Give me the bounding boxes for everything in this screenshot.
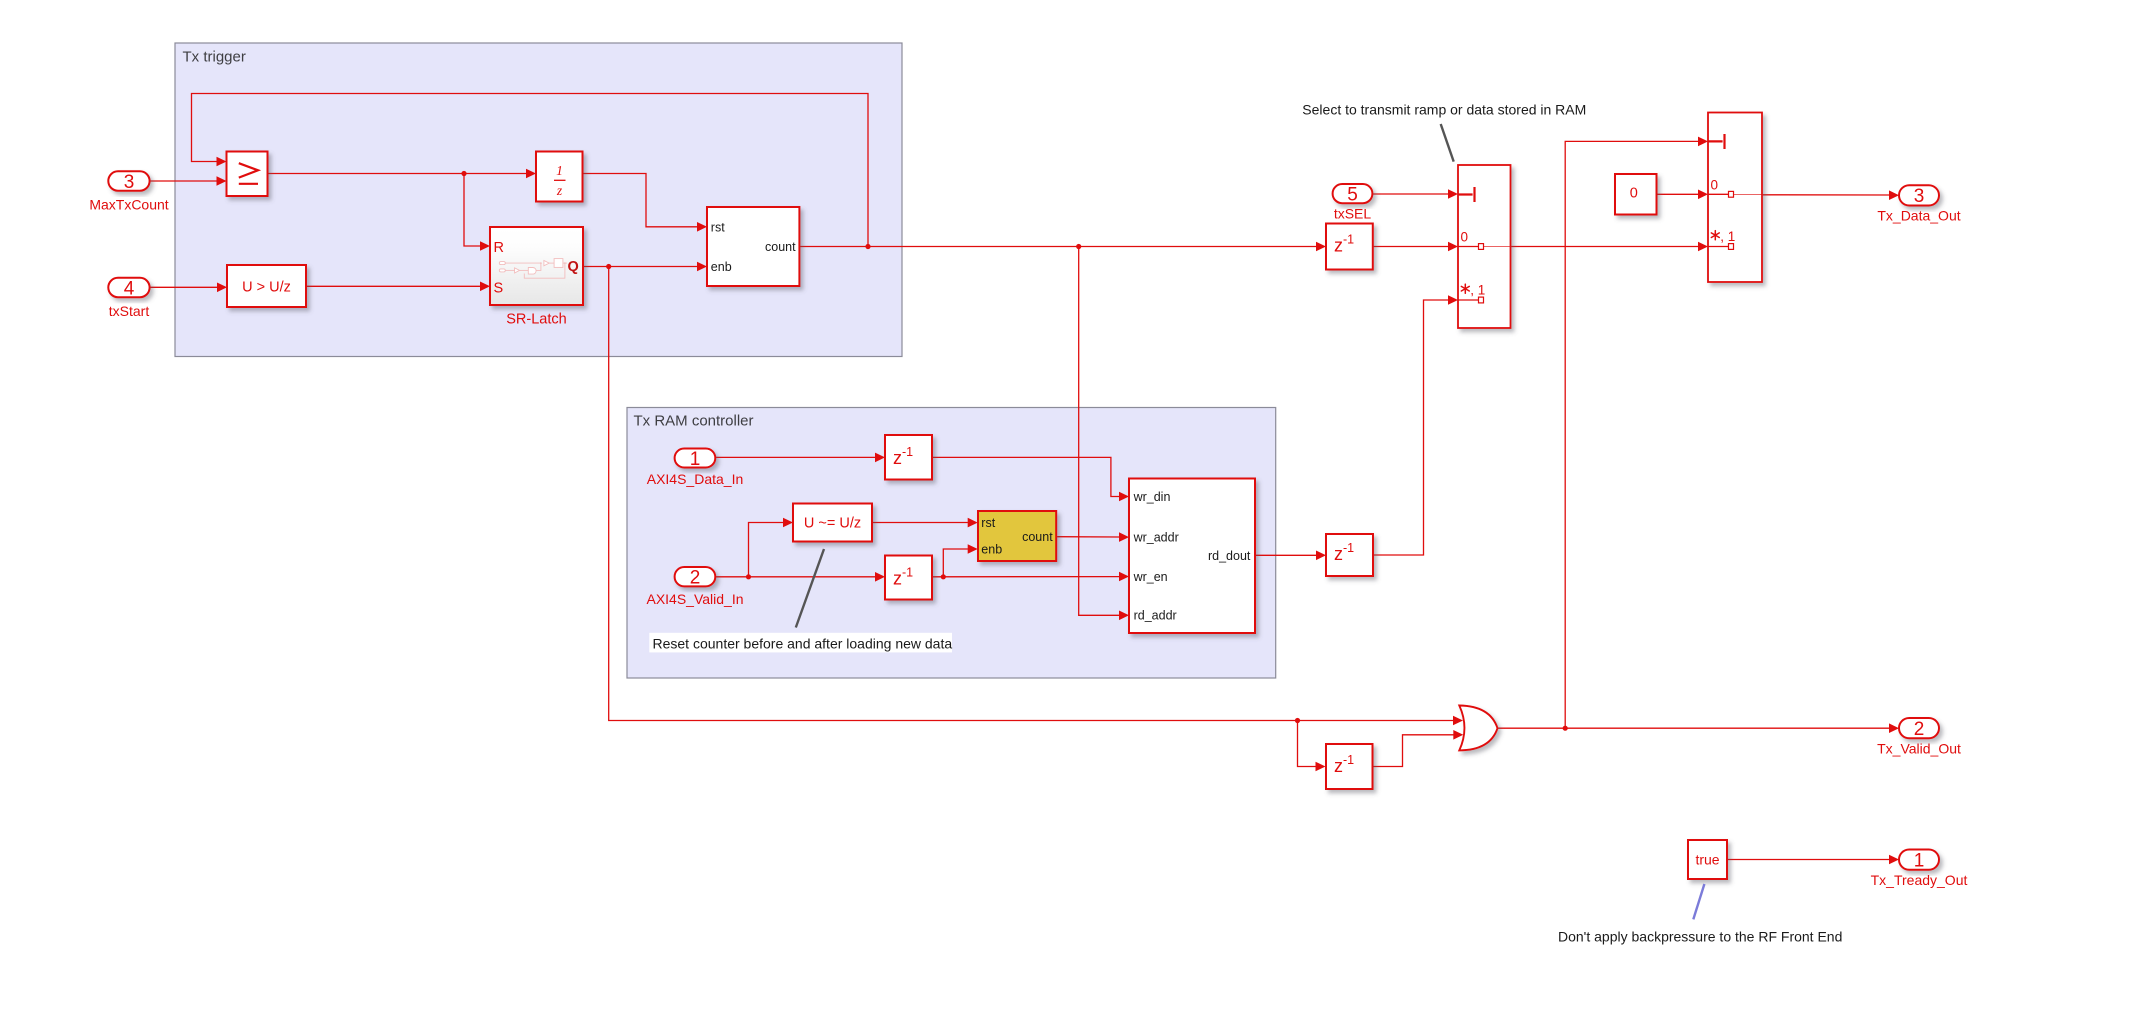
wire: Inport 3 to relational operator xyxy=(150,180,217,182)
multiport switch 1 xyxy=(1458,165,1511,328)
svg-text:count: count xyxy=(765,240,796,254)
svg-text:rd_addr: rd_addr xyxy=(1134,609,1177,623)
switch 2 input *,1 port xyxy=(1708,246,1729,248)
wire: yellow counter count to RAM wr_addr xyxy=(1056,536,1119,538)
wire: Inport 5 txSEL to multiport switch 1 control xyxy=(1372,193,1448,195)
unit delay block 1/z xyxy=(536,152,583,202)
constant block 0 xyxy=(1615,174,1657,215)
relational operator block >= xyxy=(227,152,268,197)
switch 1 input *,1 port xyxy=(1458,299,1479,301)
svg-text:1: 1 xyxy=(690,449,701,470)
wire: Inport 4 to U > U/z xyxy=(150,286,218,288)
wire: branch up to yellow counter enb xyxy=(943,549,968,577)
svg-text:Tx RAM controller: Tx RAM controller xyxy=(634,413,754,430)
compare block U ~= U/z xyxy=(793,504,872,542)
wire: unit delay 1/z to counter rst xyxy=(583,174,698,227)
multiport switch 2 xyxy=(1708,113,1762,283)
svg-text:Tx trigger: Tx trigger xyxy=(183,49,246,66)
svg-text:Q: Q xyxy=(568,259,579,275)
SR-Latch faint internal icon xyxy=(499,259,567,279)
svg-text:wr_din: wr_din xyxy=(1133,490,1171,504)
svg-text:rst: rst xyxy=(711,220,725,234)
junction: OR output branch to switch 2 control xyxy=(1563,726,1568,731)
wire: feedback from count output to relational operator top input xyxy=(192,94,869,247)
svg-text:3: 3 xyxy=(1914,186,1925,207)
wire: Inport 2 AXI4S_Valid_In to valid-in delay z-1 xyxy=(715,576,875,578)
svg-text:0: 0 xyxy=(1630,185,1638,201)
OR gate xyxy=(1459,706,1497,751)
wire: counter count output to delay z-1 (txSEL path) xyxy=(799,246,1316,248)
junction: relational operator output branch xyxy=(461,171,466,176)
svg-text:txStart: txStart xyxy=(109,303,150,319)
wire: delay z-1 to multiport switch 1 input 0 xyxy=(1373,246,1448,248)
annotation: Reset counter before and after loading new data xyxy=(649,633,952,653)
wire: constant 0 to multiport switch 2 input 0 xyxy=(1657,193,1699,195)
svg-text:Reset counter before and after: Reset counter before and after loading n… xyxy=(653,635,953,651)
svg-text:2: 2 xyxy=(1914,719,1925,740)
svg-text:z: z xyxy=(556,183,563,198)
svg-text:4: 4 xyxy=(124,278,135,299)
svg-text:true: true xyxy=(1695,851,1719,867)
annotation leader line to switch 1 xyxy=(1441,124,1454,162)
data delay block z-1 (AXI4S data) xyxy=(885,435,932,480)
wire: read delay z-1 to multiport switch 1 input *,1 xyxy=(1373,300,1448,555)
subsystem area: Tx RAM controller xyxy=(627,408,1276,679)
annotation leader line to U ~= U/z xyxy=(796,549,824,628)
wire: multiport switch 1 output to multiport switch 2 input *,1 xyxy=(1511,246,1699,248)
RAM block xyxy=(1129,479,1255,634)
constant block true xyxy=(1688,840,1727,879)
wire: multiport switch 2 output to Outport 3 Tx_Data_Out xyxy=(1762,194,1889,196)
svg-text:U > U/z: U > U/z xyxy=(242,279,291,295)
junction: Q output branch xyxy=(606,264,611,269)
wire: U > U/z to SR-Latch S input xyxy=(306,285,480,287)
delay block z-1 (count to switch) xyxy=(1326,224,1373,270)
wire: count branch down to RAM rd_addr xyxy=(1079,247,1120,616)
svg-text:rd_dout: rd_dout xyxy=(1208,549,1251,563)
wire: valid delay z-1 to OR gate bottom input xyxy=(1373,735,1454,767)
read delay block z-1 (rd_dout) xyxy=(1326,534,1373,576)
svg-text:enb: enb xyxy=(711,260,732,274)
wire: branch down to valid delay z-1 input xyxy=(1298,721,1316,767)
svg-text:Tx_Valid_Out: Tx_Valid_Out xyxy=(1877,740,1961,756)
annotation leader line to true constant xyxy=(1693,884,1704,919)
Outport 3 oval Tx_Data_Out xyxy=(1899,185,1939,205)
switch 2 control port tick xyxy=(1708,134,1725,149)
switch 1 input 0 port xyxy=(1458,246,1479,248)
svg-text:2: 2 xyxy=(690,568,701,589)
junction: valid-in branch xyxy=(746,574,751,579)
wire: RAM rd_dout to read delay z-1 xyxy=(1255,554,1316,556)
wire: Inport 1 AXI4S_Data_In to data delay z-1 xyxy=(715,456,875,458)
junction: wr_en branch to counter enb xyxy=(941,574,946,579)
svg-text:U ~= U/z: U ~= U/z xyxy=(804,515,861,531)
Inport 4 oval xyxy=(108,278,149,297)
wire: OR gate output to Outport 2 Tx_Valid_Out xyxy=(1498,727,1890,729)
svg-text:wr_addr: wr_addr xyxy=(1133,530,1179,544)
svg-text:S: S xyxy=(494,281,504,297)
svg-text:, 1: , 1 xyxy=(1470,282,1485,297)
wire: branch to SR-Latch R input xyxy=(464,174,480,247)
junction: valid line branch to delay xyxy=(1295,718,1300,723)
svg-text:wr_en: wr_en xyxy=(1133,570,1168,584)
svg-text:AXI4S_Valid_In: AXI4S_Valid_In xyxy=(646,591,743,607)
svg-text:Select to transmit ramp or dat: Select to transmit ramp or data stored i… xyxy=(1302,101,1586,117)
subsystem area: Tx trigger xyxy=(175,43,902,357)
svg-text:txSEL: txSEL xyxy=(1334,205,1372,221)
wire: OR output branch up to multiport switch 2 control xyxy=(1565,141,1698,728)
svg-text:enb: enb xyxy=(981,542,1002,556)
junction: count output branch to RAM controller xyxy=(1076,244,1081,249)
wire: branch up to U ~= U/z input xyxy=(749,523,784,577)
wire: true constant to Outport 1 Tx_Tready_Out xyxy=(1727,859,1889,861)
svg-text:5: 5 xyxy=(1347,185,1358,206)
svg-text:Don't apply backpressure to th: Don't apply backpressure to the RF Front… xyxy=(1558,928,1842,944)
svg-text:Tx_Data_Out: Tx_Data_Out xyxy=(1877,208,1960,224)
svg-text:3: 3 xyxy=(124,172,135,193)
svg-text:R: R xyxy=(494,240,504,256)
Inport 5 oval txSEL xyxy=(1333,184,1373,203)
wire: relational operator to unit delay 1/z xyxy=(268,173,527,175)
svg-text:1: 1 xyxy=(556,163,563,178)
svg-text:, 1: , 1 xyxy=(1720,229,1735,244)
svg-text:1: 1 xyxy=(1914,851,1925,872)
svg-text:0: 0 xyxy=(1461,230,1469,245)
compare block U > U/z xyxy=(227,265,306,307)
switch 1 control port tick xyxy=(1458,187,1475,202)
junction: feedback tap on count output xyxy=(865,244,870,249)
counter subsystem block with rst enb count xyxy=(707,207,799,286)
switch 2 input 0 port xyxy=(1708,193,1729,195)
svg-text:AXI4S_Data_In: AXI4S_Data_In xyxy=(647,471,744,487)
valid-in delay block z-1 xyxy=(885,556,932,600)
valid delay block z-1 (to OR gate) xyxy=(1326,744,1373,789)
yellow counter block with rst enb count xyxy=(978,511,1056,561)
wire: U ~= U/z to yellow counter rst xyxy=(872,522,968,524)
Outport 1 oval Tx_Tready_Out xyxy=(1899,850,1939,870)
Inport 2 oval AXI4S_Valid_In xyxy=(675,567,716,586)
subsystem block SR-Latch xyxy=(490,227,583,305)
svg-text:Tx_Tready_Out: Tx_Tready_Out xyxy=(1871,872,1968,888)
svg-text:0: 0 xyxy=(1711,177,1719,192)
Outport 2 oval Tx_Valid_Out xyxy=(1899,718,1939,738)
Inport 3 oval xyxy=(108,171,149,190)
wire: SR-Latch Q branch down to OR gate top input xyxy=(609,267,1453,721)
svg-text:rst: rst xyxy=(981,516,995,530)
svg-text:count: count xyxy=(1022,530,1053,544)
wire: SR-Latch Q to counter enb xyxy=(583,266,697,268)
svg-text:SR-Latch: SR-Latch xyxy=(506,312,566,328)
wire: data delay z-1 to RAM wr_din xyxy=(932,457,1119,496)
Inport 1 oval AXI4S_Data_In xyxy=(675,449,716,468)
svg-text:MaxTxCount: MaxTxCount xyxy=(89,197,168,213)
wire: valid-in delay z-1 to RAM wr_en xyxy=(932,576,1119,578)
